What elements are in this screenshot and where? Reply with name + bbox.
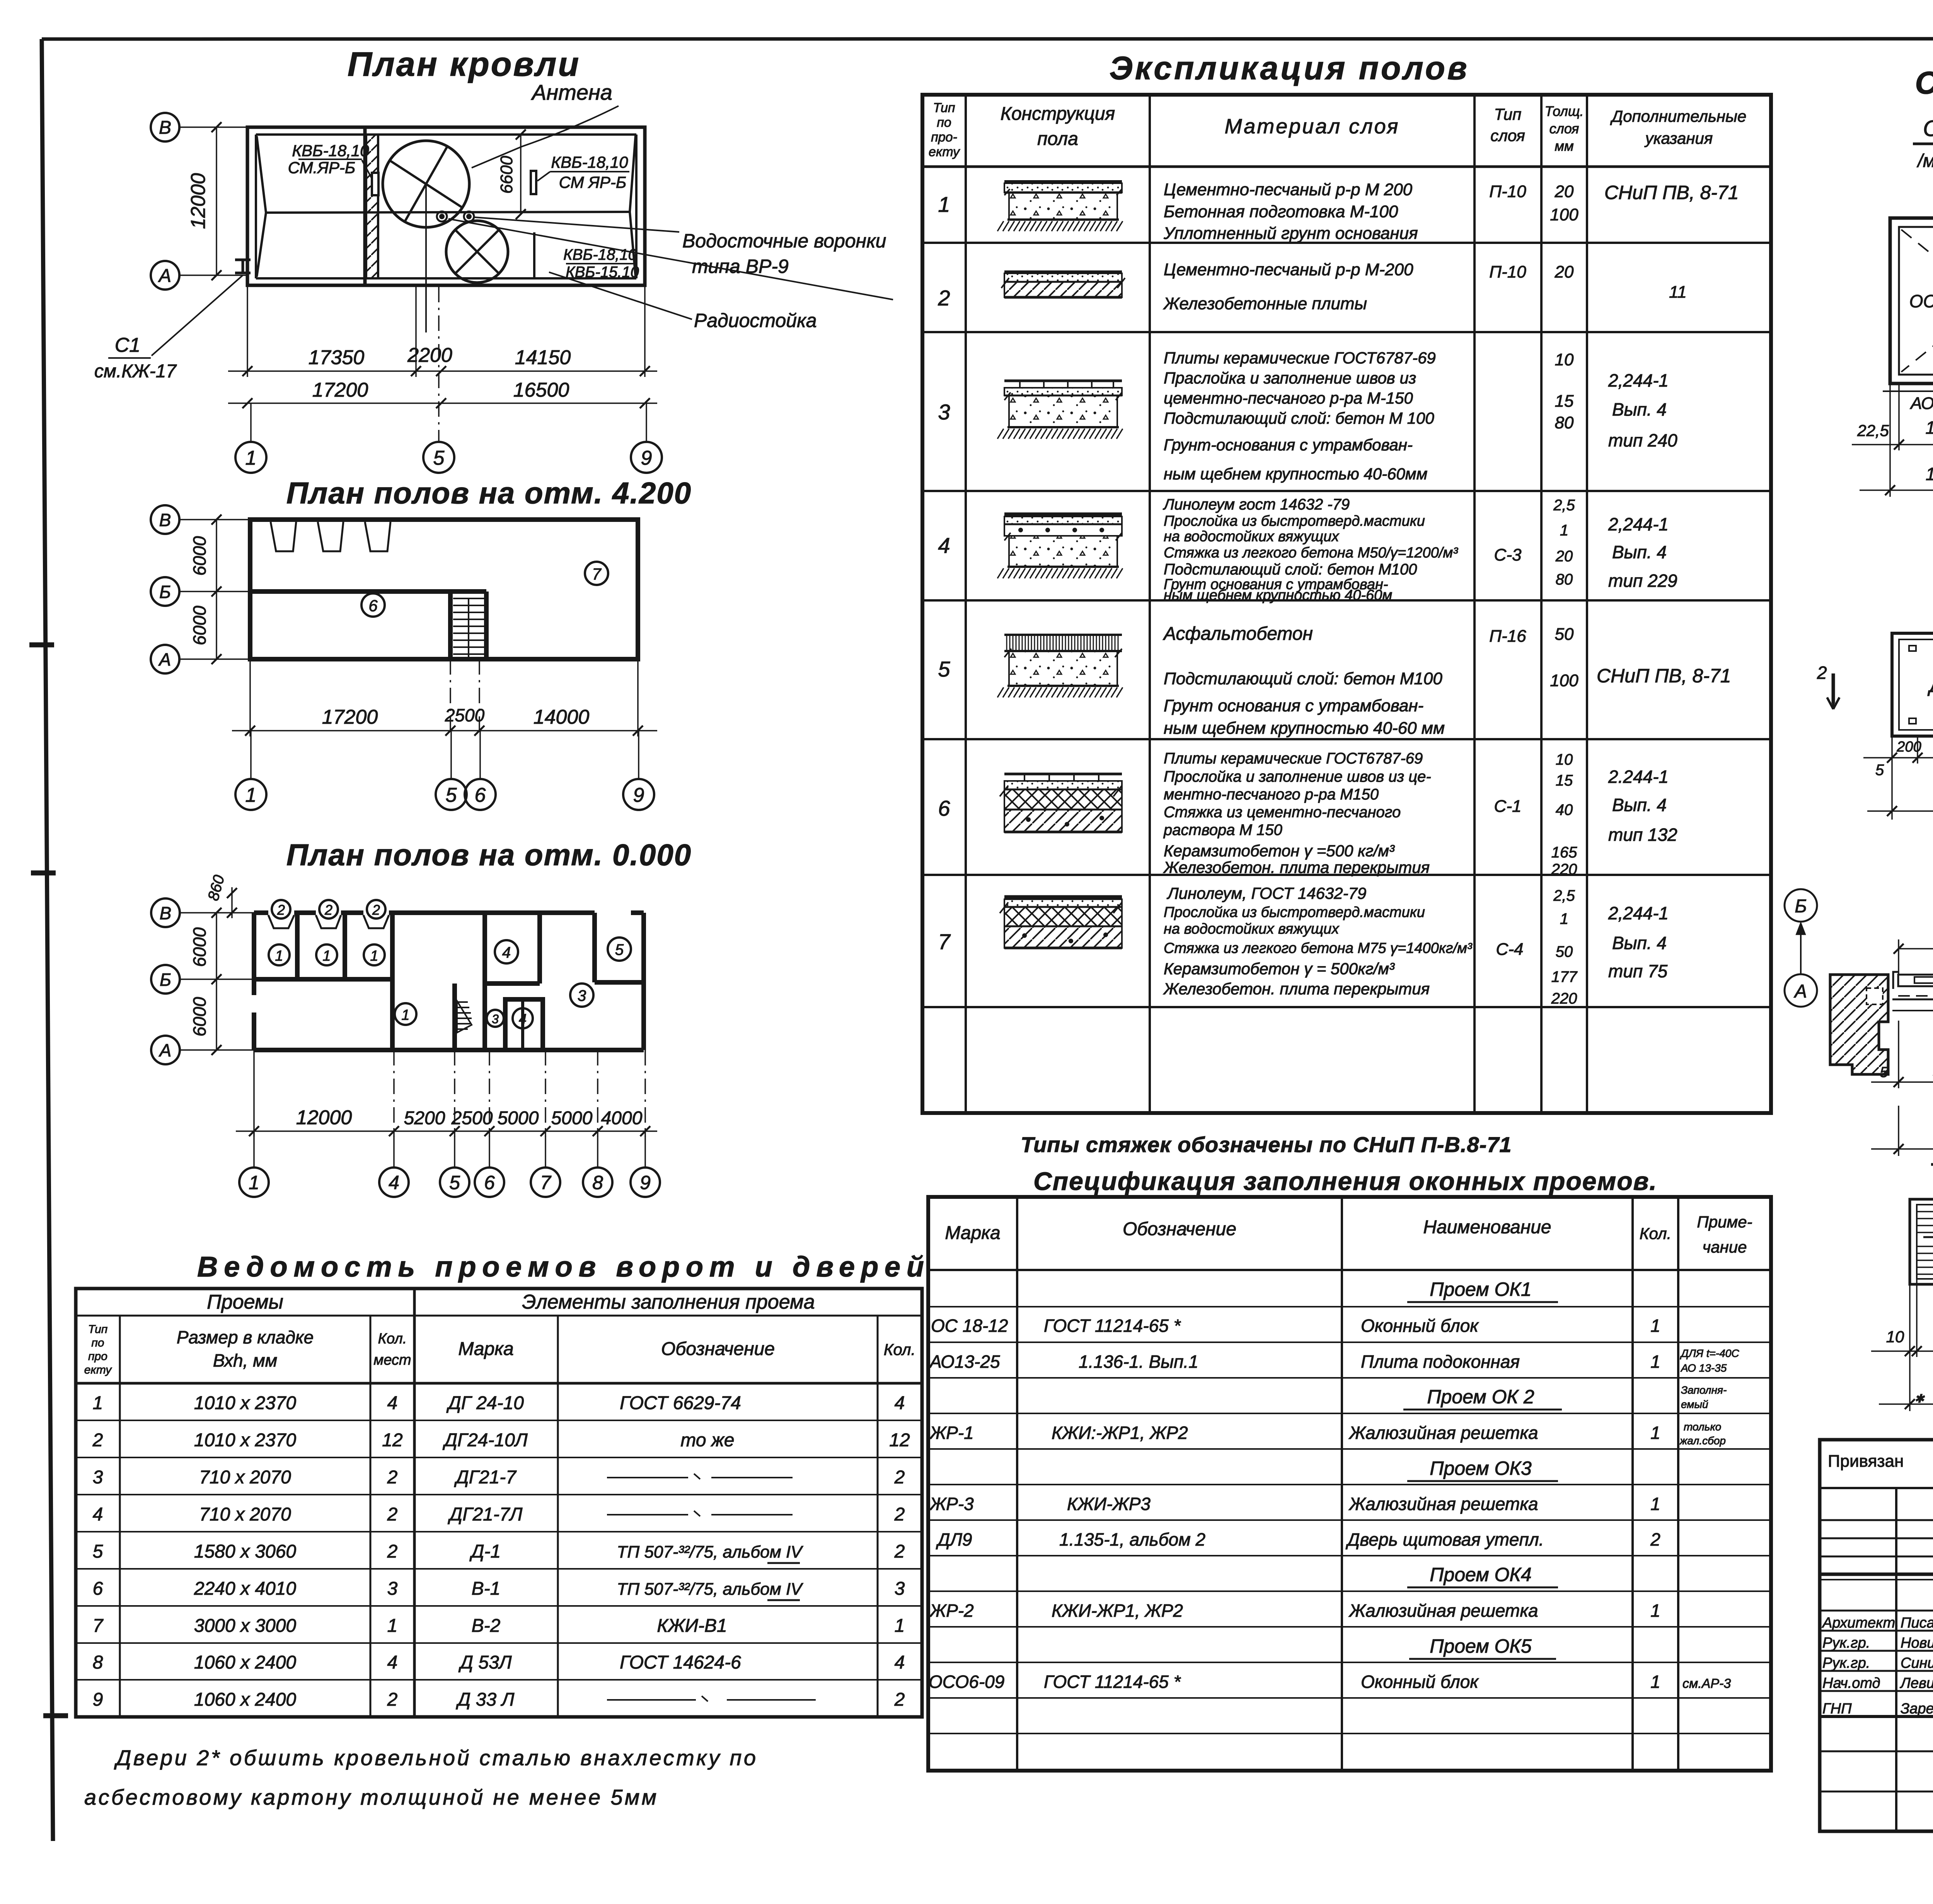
svg-text:11: 11	[1669, 283, 1687, 302]
svg-text:6: 6	[484, 1172, 495, 1193]
svg-text:5: 5	[446, 784, 457, 806]
svg-text:Дверь щитовая утепл.: Дверь щитовая утепл.	[1345, 1529, 1544, 1549]
svg-text:Новикова: Новикова	[1901, 1635, 1933, 1651]
svg-text:1010 х 2370: 1010 х 2370	[194, 1430, 297, 1451]
axis circle A	[151, 261, 179, 290]
svg-text:4: 4	[519, 1011, 527, 1027]
svg-text:50: 50	[1555, 625, 1574, 644]
svg-text:Толщ.: Толщ.	[1545, 103, 1584, 119]
svg-text:План полов на отм. 4.200: План полов на отм. 4.200	[286, 476, 692, 510]
svg-text:Праслойка и заполнение швов: Праслойка и заполнение швов из	[1164, 369, 1416, 387]
svg-text:ЖР-3: ЖР-3	[929, 1494, 974, 1514]
OK1 bottom dims 22.5 1175 22.5 1220	[1889, 384, 1891, 497]
room circle 1 big hall	[395, 1003, 416, 1025]
svg-text:С-4: С-4	[1496, 940, 1524, 959]
svg-text:2: 2	[1817, 663, 1827, 683]
svg-text:2: 2	[938, 286, 950, 310]
svg-text:3: 3	[895, 1578, 905, 1599]
svg-text:раствора М 150: раствора М 150	[1163, 822, 1282, 839]
svg-text:1: 1	[1560, 522, 1568, 539]
OK3 door elevation	[1892, 633, 1933, 736]
svg-text:Вып. 4: Вып. 4	[1612, 399, 1667, 419]
svg-text:2,5: 2,5	[1553, 887, 1575, 904]
svg-text:екту: екту	[84, 1364, 113, 1376]
svg-text:6: 6	[93, 1578, 103, 1599]
svg-text:2,244-1: 2,244-1	[1608, 903, 1669, 923]
svg-text:Рук.гр.: Рук.гр.	[1822, 1655, 1870, 1671]
spec table frame	[928, 1197, 1771, 1771]
svg-text:тип 229: тип 229	[1608, 571, 1677, 591]
svg-text:4: 4	[389, 1172, 399, 1193]
svg-text:Спецификация заполнения окон: Спецификация заполнения оконных проемов.	[1033, 1167, 1657, 1195]
svg-text:4: 4	[93, 1504, 103, 1525]
svg-text:Привязан: Привязан	[1828, 1452, 1904, 1471]
svg-text:1: 1	[1650, 1316, 1660, 1336]
svg-text:Рук.гр.: Рук.гр.	[1822, 1635, 1870, 1651]
svg-text:Б: Б	[1795, 896, 1807, 917]
svg-text:8: 8	[93, 1652, 103, 1673]
svg-text:Подстилающий слой: бетон М10: Подстилающий слой: бетон М100	[1164, 561, 1417, 578]
svg-text:ГОСТ 11214-65 *: ГОСТ 11214-65 *	[1044, 1316, 1181, 1336]
svg-text:План полов на отм. 0.000: План полов на отм. 0.000	[286, 838, 692, 872]
svg-text:Зарецкий: Зарецкий	[1901, 1701, 1933, 1717]
svg-text:ДЛ9: ДЛ9	[936, 1529, 972, 1549]
door circles 2 2 2	[272, 900, 290, 919]
svg-text:2: 2	[894, 1467, 905, 1488]
svg-text:Обозначение: Обозначение	[1123, 1219, 1236, 1239]
svg-text:Марка: Марка	[945, 1223, 1000, 1243]
stair symbol	[453, 598, 484, 654]
explication frame	[922, 95, 1771, 1113]
C1 column I-beam	[235, 260, 251, 273]
svg-text:4: 4	[895, 1393, 905, 1413]
svg-text:КВБ-18,10: КВБ-18,10	[551, 153, 628, 171]
svg-text:Керамзитобетон γ =500 кг/м³: Керамзитобетон γ =500 кг/м³	[1164, 842, 1395, 860]
svg-text:см.КЖ-17: см.КЖ-17	[94, 361, 177, 382]
svg-text:Тип: Тип	[1494, 105, 1522, 123]
svg-text:Обозначение: Обозначение	[661, 1339, 775, 1359]
firewall door rect	[372, 173, 378, 195]
sketch row3 tiles+concrete+ground	[1004, 380, 1122, 382]
svg-text:В: В	[159, 118, 171, 138]
svg-text:1: 1	[370, 948, 378, 964]
svg-text:ОС 18-12: ОС 18-12	[931, 1316, 1008, 1336]
svg-text:2200: 2200	[407, 344, 452, 366]
svg-text:2500: 2500	[451, 1108, 493, 1128]
svg-text:ОС18-12: ОС18-12	[1909, 291, 1933, 311]
svg-text:Антена: Антена	[531, 80, 612, 104]
OK1 sill AO13-25	[1883, 390, 1933, 392]
svg-text:Материал слоя: Материал слоя	[1225, 115, 1400, 138]
svg-text:А: А	[158, 649, 171, 670]
svg-text:200: 200	[1896, 739, 1921, 755]
svg-text:С-1: С-1	[1494, 797, 1522, 816]
svg-text:АО13-25: АО13-25	[929, 1352, 1000, 1372]
svg-text:В-1: В-1	[472, 1578, 501, 1599]
radio mast circle small	[446, 221, 508, 283]
svg-text:12: 12	[382, 1430, 402, 1451]
svg-text:6: 6	[938, 796, 950, 820]
axis Б-А mini arrows right of explication	[1785, 889, 1817, 1007]
sketch row1 cement+concrete+ground	[1004, 180, 1122, 183]
room circle 4 small	[513, 1008, 533, 1028]
OK4 bottom dims 10 2220 10 2240	[1909, 1284, 1911, 1411]
svg-text:слоя: слоя	[1490, 126, 1525, 145]
svg-text:Размер в кладке: Размер в кладке	[177, 1327, 314, 1347]
svg-text:Вып. 4: Вып. 4	[1612, 933, 1667, 953]
svg-text:1: 1	[387, 1616, 398, 1636]
svg-text:Керамзитобетон γ = 500кг/м³: Керамзитобетон γ = 500кг/м³	[1164, 960, 1395, 978]
svg-text:ментно-песчаного р-ра М150: ментно-песчаного р-ра М150	[1164, 786, 1379, 803]
svg-text:1580 х 3060: 1580 х 3060	[194, 1541, 297, 1562]
svg-text:2: 2	[387, 1504, 398, 1525]
svg-text:220: 220	[1551, 861, 1577, 878]
svg-text:мм: мм	[1555, 138, 1573, 154]
svg-text:План кровли: План кровли	[348, 45, 580, 83]
vertical dim 12000	[216, 127, 217, 275]
svg-text:4: 4	[387, 1652, 398, 1673]
svg-text:ДЛЯ t=-40С: ДЛЯ t=-40С	[1680, 1347, 1739, 1359]
svg-text:1: 1	[401, 1007, 409, 1023]
svg-text:3: 3	[492, 1012, 499, 1026]
svg-text:50: 50	[1556, 943, 1573, 960]
room circle 3 right	[570, 984, 593, 1007]
svg-text:7: 7	[540, 1172, 552, 1193]
svg-text:ГНП: ГНП	[1822, 1701, 1852, 1717]
svg-text:Д-1: Д-1	[469, 1541, 501, 1562]
svg-text:Приме-: Приме-	[1697, 1213, 1752, 1231]
svg-text:Тип: Тип	[88, 1323, 108, 1336]
svg-text:1.136-1. Вып.1: 1.136-1. Вып.1	[1079, 1352, 1198, 1372]
svg-text:по: по	[91, 1336, 104, 1349]
svg-text:ТП 507-³²/75, альбом IV: ТП 507-³²/75, альбом IV	[617, 1543, 803, 1561]
svg-text:АО 13-35: АО 13-35	[1680, 1362, 1727, 1374]
svg-text:емый: емый	[1681, 1398, 1708, 1410]
svg-text:жал.сбор: жал.сбор	[1679, 1435, 1726, 1447]
antenna circle large	[383, 141, 469, 227]
svg-text:про-: про-	[931, 130, 957, 145]
dims 17200 2500 14000	[249, 659, 251, 736]
svg-text:6000: 6000	[189, 927, 210, 967]
svg-text:4: 4	[387, 1393, 398, 1413]
svg-text:2: 2	[92, 1430, 103, 1451]
svg-text:Прослойка и заполнение швов из: Прослойка и заполнение швов из це-	[1164, 768, 1431, 785]
svg-text:Оконный блок: Оконный блок	[1361, 1672, 1479, 1692]
svg-text:5000: 5000	[498, 1108, 539, 1128]
svg-text:6000: 6000	[189, 997, 210, 1036]
svg-text:В: В	[160, 903, 172, 923]
svg-text:Проем ОК 2: Проем ОК 2	[1427, 1386, 1534, 1408]
svg-text:1: 1	[249, 1172, 259, 1193]
svg-text:Грунт основания с утрамбован-: Грунт основания с утрамбован-	[1164, 696, 1423, 715]
svg-text:1: 1	[1650, 1494, 1660, 1514]
svg-text:2,244-1: 2,244-1	[1608, 514, 1669, 534]
svg-text:СМ ЯР-Б: СМ ЯР-Б	[559, 173, 626, 191]
svg-text:цементно-песчаного р-ра М-150: цементно-песчаного р-ра М-150	[1164, 389, 1413, 407]
OK1 window	[1890, 218, 1933, 384]
svg-text:ным щебнем крупностью 40-60 мм: ным щебнем крупностью 40-60 мм	[1164, 719, 1445, 738]
svg-text:КЖИ-ЖР1, ЖР2: КЖИ-ЖР1, ЖР2	[1052, 1601, 1183, 1621]
firewall hatched strip	[363, 129, 367, 285]
svg-text:1: 1	[322, 948, 331, 964]
svg-text:Цементно-песчаный р-р М-200: Цементно-песчаный р-р М-200	[1164, 260, 1413, 279]
svg-text:Железобетон. плита перекрытия: Железобетон. плита перекрытия	[1163, 980, 1430, 998]
svg-text:Сининисов: Сининисов	[1901, 1655, 1933, 1671]
svg-text:Нач.отд: Нач.отд	[1822, 1675, 1880, 1691]
svg-text:Кол.: Кол.	[1640, 1224, 1672, 1243]
svg-text:5: 5	[449, 1172, 460, 1193]
svg-text:100: 100	[1550, 671, 1578, 690]
axis circle B	[151, 113, 179, 141]
roof hips and ridge	[257, 136, 266, 213]
svg-text:только: только	[1684, 1421, 1721, 1433]
svg-text:ЖР-1: ЖР-1	[929, 1423, 974, 1443]
svg-text:КВБ-18,10: КВБ-18,10	[292, 141, 369, 160]
svg-text:Б: Б	[160, 970, 171, 990]
room circle 6	[361, 593, 385, 617]
svg-text:Асфальтобетон: Асфальтобетон	[1163, 624, 1313, 644]
sketch row2 slab	[1004, 271, 1122, 273]
svg-text:17200: 17200	[322, 706, 378, 728]
dim row 17350 2200 14150	[247, 286, 248, 377]
svg-text:П-16: П-16	[1489, 627, 1526, 646]
svg-text:2,5: 2,5	[1553, 497, 1575, 514]
svg-text:ГОСТ 14624-6: ГОСТ 14624-6	[620, 1652, 741, 1673]
grid circles 1 4 5 6 7 8 9	[253, 1131, 255, 1168]
left margin tick 1	[29, 643, 54, 648]
vertical dims 6000 6000	[216, 913, 217, 1050]
svg-text:Линолеум гост 14632 -79: Линолеум гост 14632 -79	[1163, 496, 1350, 513]
svg-text:КЖИ-ЖР3: КЖИ-ЖР3	[1067, 1494, 1151, 1514]
svg-text:2: 2	[1650, 1529, 1660, 1549]
svg-text:12000: 12000	[187, 173, 210, 229]
svg-text:3000 х 3000: 3000 х 3000	[194, 1616, 297, 1636]
axis circles B B A	[151, 505, 179, 534]
svg-text:2.244-1: 2.244-1	[1608, 767, 1669, 787]
svg-text:Вып. 4: Вып. 4	[1612, 542, 1667, 562]
svg-text:9: 9	[93, 1689, 103, 1710]
svg-text:2: 2	[894, 1504, 905, 1525]
svg-text:3: 3	[93, 1467, 103, 1488]
svg-text:3: 3	[387, 1578, 398, 1599]
svg-text:✱: ✱	[1914, 1393, 1925, 1405]
svg-text:40: 40	[1556, 801, 1573, 818]
svg-text:Проем ОК5: Проем ОК5	[1430, 1635, 1532, 1657]
left margin tick 2	[31, 871, 56, 876]
svg-text:КВБ-15.10: КВБ-15.10	[566, 264, 639, 281]
svg-text:Конструкция: Конструкция	[1001, 104, 1115, 124]
svg-text:см.АР-3: см.АР-3	[1682, 1676, 1731, 1691]
svg-text:4: 4	[895, 1652, 905, 1673]
svg-text:КЖИ-В1: КЖИ-В1	[657, 1616, 727, 1636]
svg-text:ЖР-2: ЖР-2	[929, 1601, 974, 1621]
OK4 louvre window	[1910, 1199, 1933, 1284]
svg-text:1: 1	[1650, 1352, 1660, 1372]
doors table frame	[76, 1289, 922, 1717]
svg-text:Кол.: Кол.	[378, 1331, 407, 1347]
svg-text:АО 13-25: АО 13-25	[1909, 394, 1933, 413]
svg-text:ТП 507-³²/75, альбом IV: ТП 507-³²/75, альбом IV	[617, 1580, 803, 1599]
section marks 2 left right	[1832, 673, 1835, 704]
svg-text:Уплотненный грунт основания: Уплотненный грунт основания	[1163, 224, 1418, 243]
svg-text:1175: 1175	[1926, 418, 1933, 438]
left stamp table	[1820, 1440, 1933, 1831]
2-2 left wall block	[1830, 975, 1888, 1074]
svg-text:КВБ-18,10: КВБ-18,10	[563, 246, 637, 263]
svg-text:Стяжка из легкого бетона М50/γ: Стяжка из легкого бетона М50/γ=1200/м³	[1164, 545, 1458, 561]
svg-text:Кол.: Кол.	[884, 1340, 916, 1359]
svg-text:4000: 4000	[601, 1108, 643, 1128]
svg-text:Типы стяжек обозначены по СНи: Типы стяжек обозначены по СНиП П-В.8-71	[1021, 1132, 1512, 1157]
svg-text:710 х 2070: 710 х 2070	[199, 1504, 291, 1525]
svg-text:ДГ21-7: ДГ21-7	[454, 1467, 517, 1488]
svg-text:тип 240: тип 240	[1608, 430, 1677, 450]
svg-text:Прослойка из быстротверд.масти: Прослойка из быстротверд.мастики	[1164, 513, 1425, 529]
svg-text:С1: С1	[115, 334, 140, 356]
svg-text:7: 7	[938, 929, 951, 954]
svg-text:12000: 12000	[296, 1106, 352, 1129]
svg-text:Прослойка из быстротверд.масти: Прослойка из быстротверд.мастики	[1164, 904, 1425, 920]
svg-text:чание: чание	[1703, 1238, 1747, 1256]
svg-text:6000: 6000	[189, 536, 210, 576]
svg-text:на водостойких вяжущих: на водостойких вяжущих	[1164, 921, 1340, 937]
stair hatch	[457, 1002, 472, 1029]
svg-text:5: 5	[433, 447, 445, 469]
svg-text:СНиП ПВ, 8-71: СНиП ПВ, 8-71	[1604, 182, 1739, 203]
room circle 4	[495, 940, 518, 963]
svg-text:1220: 1220	[1926, 464, 1933, 484]
svg-text:15: 15	[1556, 772, 1573, 789]
svg-text:Плиты керамические ГОСТ6787-69: Плиты керамические ГОСТ6787-69	[1164, 750, 1423, 767]
svg-text:1: 1	[895, 1616, 905, 1636]
room circle 5	[608, 938, 631, 961]
svg-text:Архитект.: Архитект.	[1822, 1615, 1899, 1631]
2-2 door leafs	[1898, 975, 1933, 986]
grid circles 1 5 6 9	[250, 731, 252, 779]
svg-text:Д 53Л: Д 53Л	[458, 1652, 512, 1673]
svg-text:5: 5	[938, 657, 950, 681]
sketch row6 tiles+screed+keramzit+slab	[1004, 773, 1122, 776]
svg-text:20: 20	[1555, 182, 1574, 201]
sheet border frame	[42, 39, 1933, 39]
svg-text:7: 7	[592, 565, 602, 583]
svg-text:Вып. 4: Вып. 4	[1612, 795, 1667, 815]
walls plan 4.200	[250, 520, 638, 659]
svg-text:ГОСТ 11214-65 *: ГОСТ 11214-65 *	[1044, 1672, 1181, 1692]
svg-text:20: 20	[1555, 263, 1574, 281]
svg-text:тип 75: тип 75	[1608, 961, 1668, 981]
svg-text:Дополнительные: Дополнительные	[1610, 107, 1747, 125]
svg-text:2240 х 4010: 2240 х 4010	[194, 1578, 297, 1599]
drain funnel circles	[437, 211, 447, 222]
svg-text:Плита подоконная: Плита подоконная	[1361, 1352, 1520, 1372]
svg-text:тип 132: тип 132	[1608, 825, 1677, 845]
dim 860	[231, 887, 233, 918]
svg-text:Д 33 Л: Д 33 Л	[456, 1689, 515, 1710]
svg-text:про: про	[88, 1350, 107, 1363]
svg-text:10: 10	[1555, 350, 1574, 369]
svg-text:1: 1	[245, 784, 257, 806]
svg-text:710 х 2070: 710 х 2070	[199, 1467, 291, 1488]
svg-text:5: 5	[1875, 762, 1884, 779]
svg-text:2: 2	[277, 902, 285, 918]
svg-text:220: 220	[1551, 990, 1577, 1007]
svg-text:Стяжка из цементно-песчаного: Стяжка из цементно-песчаного	[1164, 804, 1401, 821]
svg-text:100: 100	[1550, 205, 1578, 224]
svg-text:Железобетонные плиты: Железобетонные плиты	[1163, 294, 1367, 313]
svg-text:Подстилающий слой: бетон М 10: Подстилающий слой: бетон М 100	[1164, 409, 1434, 427]
svg-text:Грунт-основания с утрамбован-: Грунт-основания с утрамбован-	[1164, 436, 1413, 454]
svg-text:1: 1	[938, 192, 950, 216]
sketch row7 linoleum+keramzit+slab	[1004, 895, 1122, 899]
svg-text:17350: 17350	[309, 346, 365, 369]
svg-text:17200: 17200	[312, 379, 368, 401]
svg-text:2,244-1: 2,244-1	[1608, 370, 1669, 390]
svg-text:Элементы заполнения проема: Элементы заполнения проема	[522, 1291, 815, 1313]
svg-text:Проем ОК1: Проем ОК1	[1430, 1278, 1531, 1300]
svg-text:Схема заполнения оконных пр: Схема заполнения оконных проемов	[1915, 65, 1933, 101]
room circles 1 1 1	[269, 944, 290, 965]
grid circles 1 5 9	[250, 403, 252, 442]
vertical dims 6000 6000	[216, 520, 217, 659]
svg-text:В: В	[159, 510, 171, 530]
svg-text:ным щебнем крупностью 40-60мм: ным щебнем крупностью 40-60мм	[1164, 465, 1427, 483]
door leafs top wall	[271, 522, 296, 551]
underlines of section headers in spec	[1407, 1301, 1558, 1303]
svg-text:2500: 2500	[445, 705, 485, 725]
svg-text:слоя: слоя	[1549, 121, 1579, 136]
axis circles	[151, 898, 180, 927]
svg-text:2: 2	[894, 1541, 905, 1562]
svg-text:А: А	[159, 1040, 172, 1060]
svg-text:1: 1	[245, 447, 257, 469]
svg-text:ным щебнем крупностью 40-60м: ным щебнем крупностью 40-60м	[1164, 587, 1392, 603]
svg-text:ДГ21-7Л: ДГ21-7Л	[448, 1504, 523, 1525]
svg-text:15: 15	[1555, 392, 1574, 411]
svg-text:Проемы: Проемы	[207, 1291, 283, 1313]
svg-text:указания: указания	[1644, 129, 1713, 147]
svg-text:3: 3	[578, 987, 586, 1004]
svg-text:1: 1	[1650, 1601, 1660, 1621]
svg-text:СНиП ПВ, 8-71: СНиП ПВ, 8-71	[1597, 665, 1731, 687]
svg-text:Марка: Марка	[458, 1339, 513, 1359]
svg-text:Жалюзийная решетка: Жалюзийная решетка	[1348, 1601, 1538, 1621]
dim row 17200 16500	[228, 402, 657, 404]
svg-text:то же: то же	[680, 1430, 734, 1451]
svg-text:Плиты керамические ГОСТ6787-6: Плиты керамические ГОСТ6787-69	[1164, 349, 1436, 367]
svg-text:1060 х 2400: 1060 х 2400	[194, 1652, 297, 1673]
left margin tick 3	[43, 1713, 68, 1718]
svg-text:Проем ОК4: Проем ОК4	[1430, 1564, 1531, 1585]
room circle 3 small	[487, 1010, 504, 1027]
vertical dim 6600	[520, 135, 522, 214]
svg-text:2: 2	[387, 1467, 398, 1488]
svg-text:9: 9	[633, 784, 644, 806]
ditto marks in doors table	[607, 1474, 793, 1479]
svg-text:1: 1	[93, 1393, 103, 1413]
svg-text:Тип: Тип	[933, 101, 955, 115]
svg-text:2: 2	[387, 1689, 398, 1710]
svg-text:6000: 6000	[189, 605, 210, 645]
svg-text:Б: Б	[159, 582, 171, 602]
svg-text:С-3: С-3	[1494, 545, 1522, 564]
svg-text:Оконный блок: Оконный блок	[1361, 1316, 1479, 1336]
svg-text:ОСО6-09: ОСО6-09	[929, 1672, 1004, 1692]
svg-text:П-10: П-10	[1489, 263, 1526, 281]
svg-text:2: 2	[894, 1689, 905, 1710]
svg-text:5: 5	[93, 1541, 103, 1562]
svg-text:6: 6	[368, 597, 378, 615]
